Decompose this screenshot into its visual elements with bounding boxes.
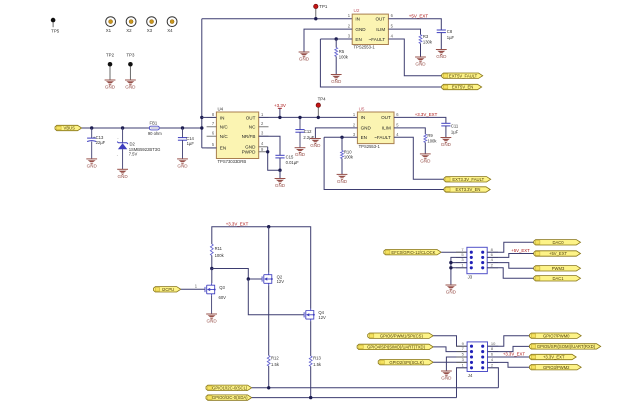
ground below C15 [275,179,286,189]
svg-text:GND: GND [441,142,452,147]
svg-text:R11: R11 [215,246,223,251]
net flag DAC0 [534,240,581,245]
wire vertical feed from top rail down to U4 [201,19,203,148]
svg-text:12V: 12V [318,315,326,320]
svg-text:DAC0: DAC0 [552,240,564,245]
ground below C8 [436,50,447,60]
svg-text:GND: GND [415,62,426,67]
wire SDA [252,397,457,399]
svg-text:C12: C12 [304,129,312,134]
net flag GPIO5/SPI(SOMI)/UART(RXD) [530,344,601,349]
mounting hole X3 [147,17,157,33]
svg-text:+5V_EXT: +5V_EXT [511,248,530,253]
wire gate bus to Q2 [212,269,262,280]
wire Q2 source to R12 [268,285,270,355]
svg-text:GND: GND [125,85,136,90]
svg-text:EFC0/GPIO-12/CLOCK: EFC0/GPIO-12/CLOCK [391,250,435,255]
resistor R13 1.5k [309,355,322,397]
wire J4 pin5 to ground [446,357,467,371]
wire U5 pin6 OUT +3.3V_EXT [394,117,446,123]
svg-text:~FAULT: ~FAULT [374,135,391,140]
wire EN to EXT5V_EN flag [320,39,441,87]
test point TP5 [51,18,60,33]
svg-text:R5: R5 [339,49,345,54]
net flag +5V_EXT [534,251,581,256]
svg-text:1.5k: 1.5k [313,362,322,367]
svg-text:GND: GND [117,174,128,179]
test point TP4 [316,96,326,117]
svg-text:X3: X3 [147,28,153,33]
svg-text:60V: 60V [219,295,227,300]
wire J3 pin8 to DAC0 [487,242,534,252]
capacitor C8 1uF [437,29,455,50]
wire U5 pin4 FAULT to EXT3.3V_FAULT flag [394,137,444,179]
ground below J3 [446,285,457,295]
svg-text:10: 10 [491,341,496,346]
wire J4 pin8 to RXD [488,346,530,351]
svg-text:EXT5V_FAULT: EXT5V_FAULT [449,73,478,78]
transistor Q2 12V [262,273,284,286]
svg-text:X4: X4 [167,28,173,33]
svg-text:TPS2553-1: TPS2553-1 [359,144,381,149]
junction Q2 drain [267,225,270,228]
net flag +3.3V_EXT [530,354,577,359]
power flag +3.3V [274,103,286,118]
svg-text:+3.3V: +3.3V [274,103,286,108]
svg-text:R3: R3 [423,34,429,39]
junction R10/EN [340,136,343,139]
wire J4 pin10 to GPIO7/PWM0 [488,336,530,347]
svg-text:TP3: TP3 [126,52,135,57]
svg-text:GPIO3/PWM2: GPIO3/PWM2 [543,365,570,370]
junction J3 pin3 [449,261,452,264]
ground below R5 [331,75,342,85]
wire +3.3V_EXT rail [212,227,311,309]
mounting hole X1 [106,17,116,33]
svg-text:X1: X1 [106,28,112,33]
ferrite bead FB1 90 ohm [148,121,162,136]
resistor R11 100k [210,244,224,269]
pin stubs J4 [456,341,498,368]
svg-text:GND: GND [206,319,217,324]
junction C13 [90,126,93,129]
svg-text:GND: GND [299,57,310,62]
svg-text:TPS73033DRB: TPS73033DRB [218,159,247,164]
svg-text:0.01µF: 0.01µF [286,160,300,165]
svg-text:TPS2553-1: TPS2553-1 [354,45,376,50]
svg-text:~FAULT: ~FAULT [369,37,386,42]
connector J3 [467,247,487,279]
mounting hole X2 [126,17,136,33]
svg-text:EXT3.3V_FAULT: EXT3.3V_FAULT [452,177,484,182]
svg-text:X2: X2 [126,28,132,33]
ground below C14 [177,159,188,169]
junction U4 IN [200,116,203,119]
svg-text:EN: EN [361,135,367,140]
svg-text:GPIO2/SPI(SCLK): GPIO2/SPI(SCLK) [389,360,424,365]
svg-text:ILIM: ILIM [376,27,385,32]
svg-text:GND: GND [105,85,116,90]
load switch U5 TPS2553-1 [353,106,399,148]
op-amp U2 TPS2553-1 load switch [348,8,394,50]
net flag GPIO2/SPI(SCLK) [378,360,433,365]
svg-text:NC: NC [249,125,256,130]
svg-text:EN: EN [355,37,361,42]
wire U5 pin3 EN [324,136,357,138]
resistor R9 100k [424,133,437,154]
junction vertical feed [200,126,203,129]
connector J4 [467,342,487,378]
net flag GPIO1/I2C(SCL) [206,385,252,390]
wire J4 pin4 to GPIO3/PWM2 [488,362,530,367]
wire J3 pin2 to DAC1 [487,268,534,279]
test point TP2 [106,52,115,80]
wire U5 pin2 GND [315,128,357,139]
svg-text:1µF: 1µF [447,35,455,40]
resistor R5 100k [335,39,349,75]
ground below J4 [441,371,452,381]
junction D2 [121,126,124,129]
svg-text:1µF: 1µF [451,129,459,134]
net flag DAC1 [534,276,581,281]
svg-text:IN: IN [220,115,225,120]
junction C15 bottom [278,169,281,172]
svg-text:GND: GND [361,126,372,131]
ground below C12 [295,148,306,158]
svg-text:GND: GND [337,179,348,184]
svg-text:2.2µF: 2.2µF [303,135,314,140]
net flag GPIO6/PWM1/SPI(CS) [368,333,434,338]
net label +5V_EXT [409,13,429,18]
test point TP3 [126,52,135,80]
capacitor C15 0.01uF [275,155,299,171]
svg-text:TP5: TP5 [51,28,60,33]
svg-text:R13: R13 [313,355,321,360]
svg-text:GND: GND [436,54,447,59]
net flag EXT3.3V_FAULT [444,177,491,182]
svg-text:+3.3V_EXT: +3.3V_EXT [415,112,438,117]
svg-text:C11: C11 [451,124,459,129]
svg-text:J4: J4 [468,373,473,378]
junction at TP1 [314,17,317,20]
svg-text:OUT: OUT [375,17,385,22]
svg-text:+3.3V_EXT: +3.3V_EXT [503,351,525,356]
junction +3.3V tap [278,116,281,119]
svg-text:GPIO4/SPI(SIMO)/UART(TXD): GPIO4/SPI(SIMO)/UART(TXD) [367,344,425,349]
wire J3 pin4 to PWM3 [487,263,534,269]
wire U2 pin6 OUT +5V_EXT [388,19,441,30]
ground below D2 [117,169,128,179]
wire J4 pin6 to +3.3V_EXT flag [488,356,530,358]
svg-text:100k: 100k [339,54,349,59]
wire +3.3V rail U4 OUT to U5 IN [259,116,358,118]
ground at U2 pin2 [299,52,310,62]
wire J4 pin2 to SCL [488,368,499,388]
svg-text:C8: C8 [447,29,453,34]
wire gate bus to Q4 [248,279,303,315]
wire SCL [252,387,499,389]
svg-text:TP1: TP1 [319,4,328,9]
junction R13/SDA [309,396,312,399]
ground below R3 [415,57,426,67]
svg-text:100k: 100k [344,155,354,160]
resistor R3 130k [419,34,433,57]
wire CS to J4 pin9 [433,336,467,347]
wire TXD to J4 pin7 [433,347,467,352]
capacitor C11 1uF [441,123,459,137]
ground below R9 [420,154,431,164]
ground below TP2 [105,80,116,90]
net label +3.3V_EXT [415,112,438,117]
net flag EFC0/GPIO-12/CLOCK [384,250,441,255]
svg-text:VBUS: VBUS [64,126,76,131]
svg-text:IN: IN [355,17,360,22]
ground at U5 pin2 [310,139,321,149]
wire U4 GND/PWPD [268,147,280,170]
junction TP4 [317,116,320,119]
svg-text:OUT: OUT [246,115,256,120]
svg-text:+3.3V_EXT: +3.3V_EXT [226,221,249,226]
wire Q2 drain up [268,227,270,273]
net label +5V_EXT at J3 [511,248,530,253]
svg-text:U5: U5 [359,106,365,111]
junction J3 pin1 [449,266,452,269]
wire U2 pin3 EN [320,38,352,40]
svg-text:1µF: 1µF [187,141,195,146]
svg-text:GPIO7/PWM0: GPIO7/PWM0 [543,333,570,338]
wire CLOCK to J3 pin7 [441,251,467,253]
svg-text:U4: U4 [218,106,224,111]
wire U5 pin5 ILIM to R9 [394,128,425,134]
pin stubs U4 left [207,117,217,147]
wire U4 EN from feed [202,147,217,149]
junction gate bus [247,277,250,280]
svg-text:GND: GND [441,376,452,381]
wire Q3 source to ground [211,296,213,314]
net flag EXT5V_FAULT [442,73,483,78]
mounting hole X4 [167,17,177,33]
net label +3.3V_EXT rail [226,221,249,226]
svg-text:1.5k: 1.5k [271,362,280,367]
net flag GPIO7/PWM0 [530,333,582,338]
junction C14 [181,126,184,129]
svg-text:TP4: TP4 [318,96,327,101]
voltage regulator U4 TPS73033DRB [212,106,264,164]
resistor R10 100k [341,137,354,174]
wire to ground U4 [279,170,281,178]
net flag EXT5V_EN [442,84,482,89]
wire SCLK to J4 pin3 [433,361,467,363]
wire J3 ground bus [451,257,467,285]
net flag EXT3.3V_EN [444,187,490,192]
wire VBUS-protected rail to U2 IN [202,18,352,20]
svg-text:GPIO6/PWM1/SPI(CS): GPIO6/PWM1/SPI(CS) [380,333,424,338]
svg-text:DAC1: DAC1 [552,276,564,281]
junction R12/SCL [267,386,270,389]
svg-text:Q3: Q3 [219,285,225,290]
wire Q4 source to R13 [310,321,312,356]
wire U4 NR/FB to C15 [259,136,280,155]
junction R5/EN [335,37,338,40]
svg-text:GND: GND [177,163,188,168]
wire U2 pin2 GND [304,29,352,52]
svg-text:+5V_EXT: +5V_EXT [549,251,567,256]
ground below Q3 [206,314,217,324]
svg-text:90 ohm: 90 ohm [148,131,162,136]
svg-text:I2CPU: I2CPU [162,287,174,292]
net flag PWM3 [534,266,581,271]
svg-text:OUT: OUT [381,115,391,120]
ground below C11 [441,138,452,148]
svg-text:+3.3V_EXT: +3.3V_EXT [543,355,565,360]
svg-text:NR/FB: NR/FB [242,134,256,139]
svg-text:R10: R10 [344,149,352,154]
wire U2 pin4 FAULT to EXT5V_FAULT flag [388,39,441,76]
svg-text:22µF: 22µF [96,140,106,145]
svg-text:J3: J3 [468,274,473,279]
svg-text:EXT3.3V_EN: EXT3.3V_EN [456,187,481,192]
test point TP1 [314,4,328,19]
svg-text:N/C: N/C [220,125,229,130]
pin stubs J3 [456,247,498,268]
svg-text:100k: 100k [427,139,437,144]
svg-text:TP2: TP2 [106,52,115,57]
wire J4 pin1 to SDA [457,368,468,398]
wire U2 pin5 ILIM to R3 [388,29,420,35]
junction U4 pin9 [266,150,269,153]
ground below TP3 [125,80,136,90]
svg-text:GND: GND [275,183,286,188]
svg-text:GND: GND [295,152,306,157]
capacitor C12 2.2uF [295,117,314,147]
svg-text:130k: 130k [423,39,433,44]
net flag GPIO3/PWM2 [530,365,582,370]
svg-text:GND: GND [87,163,98,168]
wire R11 to Q3 drain [211,269,213,284]
svg-text:PWM3: PWM3 [552,266,565,271]
svg-text:IN: IN [361,115,366,120]
svg-text:GND: GND [310,143,321,148]
svg-text:R12: R12 [271,355,279,360]
svg-text:PWPD: PWPD [242,150,256,155]
svg-text:7.5V: 7.5V [129,152,138,157]
svg-text:GND: GND [446,290,457,295]
capacitor C14 1uF [178,128,195,159]
svg-text:GND: GND [420,158,431,163]
zener diode D2 1SMB5922BT3G [117,128,161,169]
junction R11/Q3/gates [210,267,213,270]
capacitor C13 22uF [87,128,106,159]
svg-text:12V: 12V [277,279,285,284]
junction C12 [298,116,301,119]
svg-text:GPIO1/I2C-0(SCL): GPIO1/I2C-0(SCL) [212,385,248,390]
resistor R12 1.5k [267,355,280,388]
svg-text:ILIM: ILIM [382,126,391,131]
svg-text:D2: D2 [130,141,136,146]
wire EN to EXT3.3V_EN flag [324,137,444,189]
svg-text:EN: EN [220,146,226,151]
net flag GPIO4/SPI(SIMO)/UART(TXD) [357,344,433,349]
net label +3.3V_EXT at J4 [503,351,525,356]
pin stubs U4 right [259,117,269,151]
svg-text:GPIO5/SPI(SOMI)/UART(RXD): GPIO5/SPI(SOMI)/UART(RXD) [537,344,596,349]
wire I2CPU to Q3 gate [181,283,205,289]
wire U4 IN from feed [202,116,217,118]
svg-text:R9: R9 [427,133,433,138]
transistor Q3 60V [205,283,226,300]
ground below C13 [86,159,97,169]
svg-text:100k: 100k [215,253,225,258]
svg-text:GND: GND [355,27,366,32]
svg-text:GND: GND [331,79,342,84]
svg-text:FB1: FB1 [150,121,158,126]
net flag I2CPU [154,287,181,292]
svg-text:N/C: N/C [220,134,229,139]
transistor Q4 12V [304,309,326,322]
net flag GPIO0/I2C(SDA) [206,395,252,400]
svg-text:EXT5V_EN: EXT5V_EN [452,85,473,90]
svg-text:U2: U2 [354,8,360,13]
wire VBUS rail [82,127,202,129]
wire J3 pin6 to +5V_EXT [487,254,534,258]
svg-text:GPIO0/I2C-0(SDA): GPIO0/I2C-0(SDA) [212,395,248,400]
net flag VBUS [55,125,82,130]
ground below R10 [337,174,348,184]
svg-text:+5V_EXT: +5V_EXT [409,13,429,18]
